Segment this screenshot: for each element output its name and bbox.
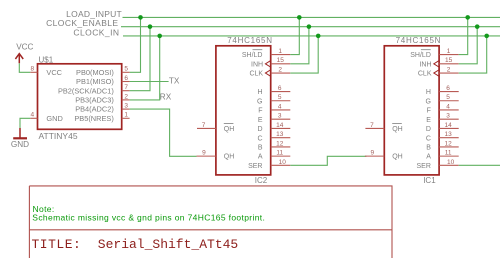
svg-text:INH: INH (251, 61, 263, 68)
svg-text:5: 5 (278, 94, 282, 101)
wire PB4 pin 3 to IC2 QH (130, 109, 197, 156)
svg-text:VCC: VCC (16, 43, 33, 52)
svg-text:3: 3 (124, 103, 128, 110)
IC1 pin 12 B stub (439, 146, 459, 148)
IC1 pin 6 H stub (439, 91, 459, 93)
svg-text:GND: GND (11, 140, 29, 149)
svg-text:15: 15 (277, 57, 285, 64)
svg-text:PB2(SCK/ADC1): PB2(SCK/ADC1) (58, 86, 114, 95)
wire net CLOCK_IN horizontal (123, 35, 500, 37)
pin 4 GND stub (30, 117, 37, 119)
IC2 pin 2 CLK stub (271, 72, 291, 74)
svg-text:2: 2 (447, 66, 451, 73)
wire TX from PB1 pin 6 (130, 81, 169, 83)
svg-text:4: 4 (30, 112, 34, 119)
svg-text:G: G (425, 98, 430, 105)
svg-text:PB0(MOSI): PB0(MOSI) (76, 68, 114, 77)
IC2 pin 6 H stub (271, 91, 291, 93)
frame border (29, 186, 392, 258)
IC1 pin 10 SER stub (439, 164, 459, 166)
svg-text:GND: GND (46, 114, 62, 123)
IC1 wire SER (459, 164, 500, 166)
wire LOAD_INPUT to PB0 pin 5 (130, 17, 141, 72)
svg-text:C: C (426, 135, 431, 142)
svg-text:A: A (258, 154, 263, 161)
IC2 clock triangle CLK (265, 70, 270, 77)
IC1 clock triangle CLK (434, 70, 439, 77)
svg-text:12: 12 (444, 140, 452, 147)
pin 7 PB2(SCK/ADC1) stub (122, 90, 130, 92)
svg-text:2: 2 (278, 66, 282, 73)
svg-text:IC2: IC2 (255, 176, 268, 185)
svg-text:8: 8 (30, 66, 34, 73)
svg-text:11: 11 (445, 150, 452, 157)
pin 2 PB3(ADC3) stub (122, 99, 130, 101)
pin 3 PB4(ADC2) stub (122, 108, 130, 110)
wire pin 4 to GND (20, 118, 30, 128)
svg-text:4: 4 (278, 103, 282, 110)
svg-text:PB5(NRES): PB5(NRES) (74, 114, 113, 123)
svg-text:IC1: IC1 (423, 176, 436, 185)
svg-text:ATTINY45: ATTINY45 (39, 131, 78, 141)
svg-text:5: 5 (124, 66, 128, 73)
svg-text:TITLE:: TITLE: (32, 237, 82, 252)
svg-text:6: 6 (124, 75, 128, 82)
svg-text:C: C (257, 135, 262, 142)
wire CLOCK_IN to PB3 pin 2 (RX) (130, 36, 160, 100)
IC1 pin 4 F stub (439, 109, 459, 111)
svg-text:F: F (258, 108, 262, 115)
svg-text:10: 10 (279, 159, 287, 166)
IC1 pin 1 SH/LD stub (439, 54, 459, 56)
svg-text:SER: SER (248, 163, 262, 170)
IC1 junction on bus (475, 24, 480, 29)
svg-text:CLOCK_IN: CLOCK_IN (73, 27, 119, 37)
IC2 pin 12 B stub (271, 146, 291, 148)
svg-text:VCC: VCC (46, 68, 62, 77)
IC2 pin 10 SER stub (271, 164, 291, 166)
svg-text:E: E (258, 117, 263, 124)
IC2 pin 14 D stub (271, 127, 291, 129)
svg-text:1: 1 (278, 48, 282, 55)
IC1 junction on bus (465, 15, 470, 20)
svg-text:10: 10 (447, 159, 455, 166)
wire net LOAD_INPUT horizontal (123, 16, 500, 18)
svg-text:13: 13 (444, 131, 452, 138)
IC2 wire SER (290, 156, 366, 165)
IC1 pin 7 QH-bar stub (365, 127, 384, 129)
svg-text:Serial_Shift_ATt45: Serial_Shift_ATt45 (98, 237, 238, 252)
svg-text:TX: TX (169, 77, 180, 86)
pin 8 VCC stub (30, 71, 37, 73)
svg-text:INH: INH (419, 61, 431, 68)
IC2 pin 9 QH stub (197, 155, 216, 157)
svg-text:13: 13 (276, 131, 284, 138)
svg-text:H: H (257, 89, 262, 96)
svg-text:B: B (258, 145, 263, 152)
svg-text:6: 6 (446, 85, 450, 92)
IC1 pin 2 CLK stub (439, 72, 459, 74)
IC IC2 74HC165N body (216, 46, 271, 175)
pin 1 PB5(NRES) stub (122, 117, 130, 119)
wire VCC to pin 8 (19, 63, 30, 72)
IC2 pin 4 F stub (271, 109, 291, 111)
svg-text:D: D (257, 126, 262, 133)
svg-text:U$1: U$1 (39, 55, 54, 64)
svg-text:14: 14 (276, 122, 284, 129)
svg-text:11: 11 (276, 150, 283, 157)
IC1 pin 9 QH stub (365, 155, 384, 157)
IC1 wire pin to bus (459, 27, 478, 64)
IC1 wire pin to bus (459, 17, 468, 54)
svg-text:CLK: CLK (249, 71, 263, 78)
IC1 pin 14 D stub (439, 127, 459, 129)
IC1 pin 3 E stub (439, 118, 459, 120)
IC2 wire pin to bus (290, 17, 299, 54)
IC2 pin 1 SH/LD stub (271, 54, 291, 56)
IC1 pin 11 A stub (439, 155, 459, 157)
IC1 wire pin to bus (459, 36, 487, 73)
svg-text:7: 7 (370, 122, 374, 129)
IC1 pin 5 G stub (439, 100, 459, 102)
svg-text:SH/LD: SH/LD (242, 52, 263, 59)
IC U$1 ATTINY45 body (38, 64, 122, 130)
svg-text:14: 14 (444, 122, 452, 129)
svg-text:74HC165N: 74HC165N (396, 36, 442, 45)
svg-text:QH: QH (224, 126, 235, 133)
IC2 wire pin to bus (290, 27, 309, 64)
IC2 junction on bus (297, 15, 302, 20)
IC2 pin 15 INH stub (271, 63, 291, 65)
junction on LOAD_INPUT (138, 15, 143, 20)
svg-text:7: 7 (124, 84, 128, 91)
IC1 pin 15 INH stub (439, 63, 459, 65)
IC2 clock triangle INH (265, 61, 270, 68)
junction on CLOCK_IN (157, 34, 162, 39)
svg-text:PB4(ADC2): PB4(ADC2) (75, 105, 114, 114)
ground symbol GND (19, 128, 21, 138)
junction on CLOCK_ENABLE (148, 24, 153, 29)
svg-text:F: F (427, 108, 431, 115)
svg-text:RX: RX (160, 92, 172, 101)
svg-text:Schematic missing vcc & gnd pi: Schematic missing vcc & gnd pins on 74HC… (32, 212, 265, 222)
svg-text:B: B (426, 145, 431, 152)
IC2 pin 7 QH-bar stub (197, 127, 216, 129)
svg-text:H: H (426, 89, 431, 96)
svg-text:QH: QH (224, 154, 235, 161)
IC2 pin 13 C stub (271, 137, 291, 139)
svg-text:QH: QH (392, 154, 403, 161)
IC2 junction on bus (307, 24, 312, 29)
IC1 junction on bus (484, 34, 489, 39)
svg-text:9: 9 (370, 150, 374, 157)
svg-text:QH: QH (392, 126, 403, 133)
svg-text:PB1(MISO): PB1(MISO) (76, 77, 114, 86)
wire CLOCK_ENABLE to PB2 pin 7 (130, 27, 150, 91)
IC2 pin 3 E stub (271, 118, 291, 120)
svg-text:CLK: CLK (418, 71, 432, 78)
svg-text:4: 4 (446, 103, 450, 110)
IC2 wire pin to bus (290, 36, 318, 73)
svg-text:E: E (426, 117, 431, 124)
svg-text:7: 7 (202, 122, 206, 129)
svg-text:9: 9 (202, 150, 206, 157)
IC IC1 74HC165N body (384, 46, 439, 175)
svg-text:5: 5 (446, 94, 450, 101)
IC2 pin 5 G stub (271, 100, 291, 102)
svg-text:1: 1 (124, 112, 128, 119)
IC1 pin 13 C stub (439, 137, 459, 139)
svg-text:6: 6 (278, 85, 282, 92)
svg-text:SH/LD: SH/LD (410, 52, 431, 59)
svg-text:12: 12 (276, 140, 284, 147)
svg-text:SER: SER (416, 163, 430, 170)
svg-text:A: A (426, 154, 431, 161)
svg-text:15: 15 (445, 57, 453, 64)
svg-text:3: 3 (278, 113, 282, 120)
pin 6 PB1(MISO) stub (122, 81, 130, 83)
svg-text:PB3(ADC3): PB3(ADC3) (75, 96, 114, 105)
svg-text:3: 3 (446, 113, 450, 120)
IC2 pin 11 A stub (271, 155, 291, 157)
svg-text:74HC165N: 74HC165N (227, 36, 273, 45)
supply symbol VCC arrow (15, 54, 23, 64)
svg-text:2: 2 (124, 93, 128, 100)
wire net CLOCK_ENABLE horizontal (121, 26, 500, 28)
IC1 clock triangle INH (434, 61, 439, 68)
IC2 junction on bus (316, 34, 321, 39)
svg-text:1: 1 (447, 48, 451, 55)
svg-text:D: D (426, 126, 431, 133)
svg-text:G: G (257, 98, 262, 105)
pin 5 PB0(MOSI) stub (122, 71, 130, 73)
